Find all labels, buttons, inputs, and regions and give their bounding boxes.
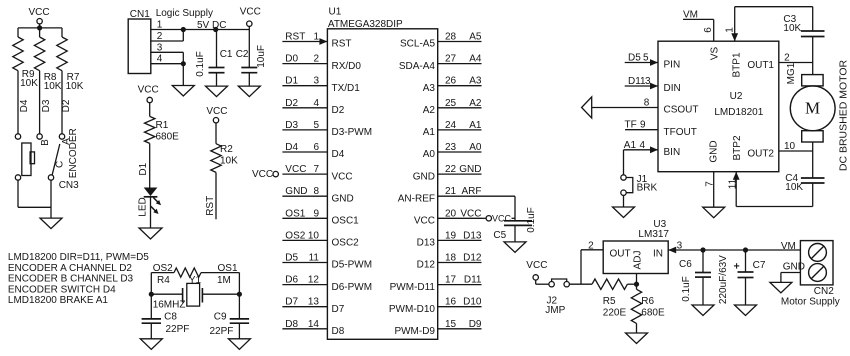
svg-text:ARF: ARF	[462, 186, 482, 197]
svg-text:16: 16	[445, 297, 457, 308]
wire net D4	[18, 71, 30, 134]
svg-text:D4: D4	[285, 142, 298, 153]
U2 pin 9 TFOUT	[625, 120, 697, 138]
U1 pin 5 D3	[282, 120, 372, 138]
svg-text:C9: C9	[214, 312, 227, 323]
ground	[735, 305, 757, 316]
pin 1	[151, 20, 184, 31]
svg-text:U1: U1	[329, 7, 342, 18]
svg-text:D0: D0	[285, 54, 298, 65]
svg-text:D12: D12	[417, 260, 436, 271]
junction	[700, 247, 705, 252]
U1 pin 15 D9	[394, 319, 481, 337]
U2 pin 1 BTP1	[724, 7, 742, 78]
U1 pin 9 OS1	[282, 208, 359, 226]
svg-text:GND: GND	[332, 193, 354, 204]
svg-text:R1: R1	[156, 120, 169, 131]
U2 pin 3 DIN	[625, 76, 681, 94]
wire	[18, 180, 51, 207]
svg-text:12: 12	[308, 275, 320, 286]
svg-text:A0: A0	[423, 149, 436, 160]
svg-text:SCL-A5: SCL-A5	[400, 39, 435, 50]
junction	[634, 282, 639, 287]
power VCC (pin20)	[482, 214, 516, 224]
pushbutton switch (encoder)	[15, 143, 34, 180]
svg-text:5: 5	[313, 120, 319, 131]
resistor R4	[157, 268, 231, 286]
connector CN1	[128, 9, 151, 74]
svg-text:SDA-A4: SDA-A4	[399, 61, 436, 72]
svg-text:DC BRUSHED MOTOR: DC BRUSHED MOTOR	[837, 59, 849, 171]
svg-text:22PF: 22PF	[166, 324, 190, 335]
svg-text:27: 27	[445, 54, 457, 65]
U2 pin 10 OUT2	[747, 141, 812, 160]
ground	[206, 86, 228, 97]
junction	[181, 27, 186, 32]
svg-text:D9: D9	[469, 319, 482, 330]
svg-text:22: 22	[445, 164, 457, 175]
U3 pin 3 IN	[653, 241, 800, 260]
wire net RST	[205, 172, 216, 219]
svg-text:OUT1: OUT1	[747, 60, 774, 71]
transistor U2 LMD18201	[658, 41, 779, 172]
svg-text:3: 3	[157, 42, 163, 53]
svg-text:D4: D4	[19, 99, 30, 112]
U1 pin 18 D12	[417, 253, 482, 271]
wire	[201, 272, 239, 274]
svg-text:VS: VS	[709, 47, 720, 61]
capacitor C3	[783, 7, 824, 75]
ground	[770, 282, 792, 293]
svg-text:1M: 1M	[217, 275, 231, 286]
ground	[139, 228, 162, 239]
junction	[743, 247, 748, 252]
svg-text:8: 8	[644, 98, 650, 109]
wire	[150, 197, 152, 228]
svg-text:7: 7	[313, 164, 319, 175]
svg-text:LMD18200 DIR=D11, PWM=D5: LMD18200 DIR=D11, PWM=D5	[8, 252, 149, 263]
svg-text:17: 17	[445, 275, 457, 286]
U1 pin 25 A2	[423, 98, 482, 116]
label Motor Supply	[781, 297, 840, 308]
U2 pin 7 GND	[704, 140, 719, 207]
svg-text:VCC: VCC	[414, 216, 435, 227]
power VCC	[240, 6, 261, 29]
svg-text:VCC: VCC	[138, 85, 159, 96]
power VCC (reset)	[206, 106, 227, 123]
svg-text:20: 20	[445, 208, 457, 219]
svg-text:VCC: VCC	[526, 260, 547, 271]
svg-text:R5: R5	[603, 296, 616, 307]
svg-text:26: 26	[445, 76, 457, 87]
svg-text:10K: 10K	[220, 156, 238, 167]
capacitor C7	[718, 250, 766, 305]
svg-text:Logic Supply: Logic Supply	[156, 8, 213, 19]
svg-text:LM317: LM317	[638, 229, 669, 240]
svg-text:A4: A4	[469, 54, 482, 65]
svg-text:ENCODER SWITCH D4: ENCODER SWITCH D4	[8, 284, 116, 295]
svg-text:11: 11	[309, 253, 320, 264]
svg-text:D6: D6	[285, 275, 298, 286]
U3 pin 2 OUT	[581, 241, 631, 285]
U2 pin 4 BIN	[624, 140, 681, 158]
svg-text:2: 2	[784, 52, 790, 63]
svg-text:D1: D1	[138, 162, 149, 175]
svg-text:D3: D3	[285, 120, 298, 131]
svg-text:C1: C1	[220, 49, 233, 60]
svg-text:680E: 680E	[641, 307, 665, 318]
svg-text:A1: A1	[624, 140, 637, 151]
svg-text:CN3: CN3	[59, 180, 79, 191]
capacitor C9	[210, 294, 250, 339]
resistor R8	[34, 28, 61, 92]
ground	[613, 207, 635, 218]
svg-text:OS1: OS1	[285, 208, 305, 219]
U2 pin 8 CSOUT	[592, 98, 699, 116]
svg-text:RST: RST	[332, 39, 352, 50]
svg-text:2: 2	[588, 241, 594, 252]
pin 2	[151, 31, 184, 42]
wire	[238, 273, 240, 295]
svg-text:C6: C6	[679, 259, 692, 270]
op-amp U1 ATMEGA328DIP	[327, 7, 437, 340]
U1 pin 19 D13	[417, 230, 482, 248]
svg-text:10K: 10K	[66, 81, 84, 92]
svg-text:15: 15	[445, 319, 457, 330]
wire ARF to C5	[482, 196, 516, 221]
U1 pin 28 A5	[400, 32, 482, 50]
svg-text:OSC2: OSC2	[332, 238, 360, 249]
svg-text:6: 6	[313, 142, 319, 153]
svg-text:A2: A2	[423, 105, 436, 116]
LED D1	[137, 188, 161, 217]
svg-text:D1: D1	[285, 76, 298, 87]
svg-text:GND: GND	[413, 171, 435, 182]
U1 pin 26 A3	[423, 76, 482, 94]
U1 pin 2 D0	[282, 54, 361, 72]
ground	[504, 242, 526, 253]
ground	[140, 339, 162, 350]
U1 pin 1 RST	[282, 32, 351, 50]
switch contact D4	[15, 134, 20, 139]
junction	[213, 27, 218, 32]
svg-text:ENCODER B CHANNEL D3: ENCODER B CHANNEL D3	[8, 274, 134, 285]
svg-text:D2: D2	[285, 98, 298, 109]
encoder switch arm C	[48, 144, 65, 180]
resistor R1	[145, 103, 180, 144]
svg-text:D8: D8	[285, 319, 298, 330]
svg-text:JMP: JMP	[545, 305, 565, 316]
U2 pin 5 PIN	[625, 53, 680, 71]
svg-text:3: 3	[313, 76, 319, 87]
svg-text:10K: 10K	[20, 78, 38, 89]
svg-text:D3: D3	[41, 99, 52, 112]
pin 4	[151, 54, 184, 65]
svg-text:TF: TF	[625, 120, 637, 131]
ground	[703, 207, 725, 218]
svg-text:D2: D2	[332, 105, 345, 116]
svg-text:680E: 680E	[156, 132, 180, 143]
wire	[182, 30, 184, 42]
junction	[237, 292, 242, 297]
svg-text:10K: 10K	[783, 23, 801, 34]
resistor R6	[631, 284, 665, 323]
svg-text:2: 2	[313, 54, 319, 65]
U1 pin 11 D5	[282, 253, 372, 271]
svg-text:VCC: VCC	[285, 164, 306, 175]
wire BTP2 to C4	[736, 206, 813, 208]
svg-text:5: 5	[643, 53, 649, 64]
resistor R7	[57, 28, 84, 92]
svg-text:D5: D5	[628, 53, 641, 64]
node VCC rail	[18, 27, 62, 29]
svg-text:C5: C5	[493, 230, 506, 241]
wire net D3	[40, 71, 52, 134]
svg-text:D8: D8	[332, 326, 345, 337]
crystal Y1	[151, 275, 239, 311]
svg-text:A1: A1	[423, 127, 436, 138]
svg-text:BRK: BRK	[637, 183, 658, 194]
switch contact B	[37, 134, 51, 146]
svg-text:D11: D11	[464, 275, 482, 286]
U1 pin 21 ARF	[398, 186, 482, 204]
svg-text:D13: D13	[463, 230, 482, 241]
note text block	[8, 252, 149, 306]
svg-text:9: 9	[313, 208, 319, 219]
svg-text:A5: A5	[469, 32, 482, 43]
svg-text:BTP1: BTP1	[732, 52, 743, 77]
svg-text:A3: A3	[423, 83, 436, 94]
svg-text:25: 25	[445, 98, 457, 109]
svg-text:C7: C7	[753, 260, 766, 271]
svg-text:VCC: VCC	[29, 7, 50, 18]
svg-text:A0: A0	[469, 142, 482, 153]
svg-text:11: 11	[727, 178, 738, 189]
U1 pin 8 GND	[282, 186, 353, 204]
node OS1	[218, 263, 238, 274]
svg-text:220uF/63V: 220uF/63V	[718, 255, 729, 304]
wire	[569, 283, 592, 285]
svg-text:ADJ: ADJ	[633, 251, 644, 270]
svg-text:4: 4	[157, 54, 163, 65]
capacitor C5	[493, 207, 537, 242]
svg-text:GND: GND	[709, 140, 720, 162]
svg-text:OS2: OS2	[285, 230, 305, 241]
svg-text:16MHZ: 16MHZ	[153, 300, 186, 311]
svg-text:TFOUT: TFOUT	[664, 127, 697, 138]
U2 pin 6 VS	[703, 19, 720, 60]
power VCC (encoder pull-ups)	[29, 7, 50, 28]
svg-text:D2: D2	[61, 99, 72, 112]
capacitor C4	[785, 173, 824, 207]
wire	[138, 143, 150, 187]
svg-text:D11: D11	[628, 76, 646, 87]
U1 pin 4 D2	[282, 98, 344, 116]
U1 pin 16 D10	[389, 297, 482, 315]
svg-text:23: 23	[445, 142, 457, 153]
svg-text:OSC1: OSC1	[332, 216, 360, 227]
resistor R9	[13, 28, 38, 89]
U1 pin 7 VCC	[252, 164, 353, 182]
svg-text:13: 13	[308, 297, 320, 308]
svg-text:18: 18	[445, 253, 457, 264]
svg-text:MG1: MG1	[786, 62, 797, 84]
U1 pin 13 D7	[282, 297, 344, 315]
svg-text:VCC: VCC	[332, 171, 353, 182]
svg-text:D10: D10	[463, 297, 482, 308]
svg-text:VCC: VCC	[240, 6, 261, 17]
svg-text:U2: U2	[730, 91, 743, 102]
svg-text:LMD18200 BRAKE A1: LMD18200 BRAKE A1	[8, 295, 108, 306]
svg-text:R2: R2	[220, 144, 233, 155]
svg-text:10: 10	[784, 141, 796, 152]
svg-text:ENCODER: ENCODER	[68, 128, 79, 178]
svg-text:A2: A2	[469, 98, 482, 109]
node VM (VS)	[683, 10, 714, 21]
U1 pin 17 D11	[390, 275, 482, 293]
capacitor C8	[142, 294, 190, 339]
svg-text:DIN: DIN	[664, 83, 681, 94]
svg-text:VM: VM	[781, 241, 796, 252]
capacitor C2	[236, 30, 267, 87]
svg-text:0.1uF: 0.1uF	[526, 207, 537, 233]
svg-text:1: 1	[313, 32, 319, 43]
svg-text:4: 4	[313, 98, 319, 109]
svg-text:A1: A1	[469, 120, 482, 131]
svg-text:B: B	[40, 139, 51, 146]
svg-text:BIN: BIN	[664, 147, 681, 158]
label DC BRUSHED MOTOR	[837, 59, 849, 171]
wire	[50, 180, 52, 218]
svg-text:220E: 220E	[603, 307, 627, 318]
svg-text:VCC: VCC	[252, 169, 273, 180]
ground	[172, 86, 194, 97]
svg-text:28: 28	[445, 32, 457, 43]
svg-text:IN: IN	[653, 248, 663, 259]
wire	[627, 283, 636, 285]
svg-text:RST: RST	[285, 32, 305, 43]
svg-text:C2: C2	[236, 49, 249, 60]
U1 pin 22 GND	[413, 164, 482, 182]
svg-text:D7: D7	[285, 297, 298, 308]
svg-text:LED: LED	[137, 197, 148, 216]
svg-text:10K: 10K	[785, 182, 803, 193]
svg-text:PWM-D11: PWM-D11	[390, 282, 436, 293]
svg-text:19: 19	[445, 230, 457, 241]
svg-text:D7: D7	[332, 304, 345, 315]
svg-text:8: 8	[313, 186, 319, 197]
node CSOUT arrow	[582, 97, 592, 118]
node OS2	[153, 263, 173, 274]
svg-text:D5: D5	[285, 253, 298, 264]
svg-text:M: M	[805, 99, 820, 118]
svg-text:3: 3	[677, 241, 683, 252]
ground	[692, 305, 714, 316]
svg-text:10K: 10K	[44, 81, 62, 92]
svg-text:VCC: VCC	[460, 208, 481, 219]
junction	[181, 61, 186, 66]
svg-text:3: 3	[645, 76, 651, 87]
svg-text:24: 24	[445, 120, 457, 131]
pin 3	[151, 42, 184, 53]
svg-text:VCC: VCC	[492, 214, 512, 224]
svg-text:D6-PWM: D6-PWM	[332, 282, 373, 293]
svg-text:4: 4	[639, 140, 645, 151]
wire	[623, 195, 625, 207]
U1 pin 24 A1	[423, 120, 482, 138]
svg-text:GND: GND	[459, 164, 481, 175]
svg-text:A3: A3	[469, 76, 482, 87]
resistor R5	[592, 279, 627, 318]
node VM (CN2)	[781, 241, 796, 252]
svg-text:R6: R6	[641, 296, 654, 307]
svg-text:6: 6	[703, 27, 714, 33]
svg-text:1: 1	[724, 27, 735, 33]
op-amp U3 LM317	[603, 219, 669, 274]
svg-text:OUT2: OUT2	[747, 149, 774, 160]
wire 5V rail	[183, 20, 249, 31]
svg-text:0.1uF: 0.1uF	[195, 51, 206, 77]
power VCC (LED)	[138, 85, 159, 103]
svg-text:10uF: 10uF	[256, 45, 267, 68]
svg-text:1: 1	[157, 20, 163, 31]
svg-text:ENCODER A CHANNEL D2: ENCODER A CHANNEL D2	[8, 263, 133, 274]
svg-text:D5-PWM: D5-PWM	[332, 260, 373, 271]
svg-text:GND: GND	[783, 262, 805, 273]
jumper J1 BRK	[621, 150, 658, 196]
svg-text:21: 21	[445, 186, 457, 197]
svg-text:TX/D1: TX/D1	[332, 83, 361, 94]
svg-text:RST: RST	[205, 196, 216, 216]
wire GND (CN2)	[781, 262, 805, 283]
svg-text:VCC: VCC	[206, 106, 227, 117]
svg-text:10: 10	[308, 230, 320, 241]
resistor R2	[211, 123, 238, 172]
ground	[238, 86, 260, 97]
ground	[228, 339, 250, 350]
wire	[182, 52, 184, 85]
U1 pin 27 A4	[399, 54, 482, 72]
junction	[149, 292, 154, 297]
svg-text:R4: R4	[157, 275, 170, 286]
ground	[40, 218, 62, 229]
svg-text:CN2: CN2	[814, 286, 834, 297]
svg-text:14: 14	[308, 319, 320, 330]
svg-text:C: C	[55, 161, 66, 168]
svg-text:D13: D13	[417, 238, 436, 249]
svg-text:22PF: 22PF	[210, 326, 234, 337]
junction	[37, 25, 42, 30]
svg-text:2: 2	[157, 31, 163, 42]
svg-text:PWM-D9: PWM-D9	[394, 326, 435, 337]
wire	[151, 272, 174, 274]
U1 pin 20 VCC	[414, 208, 482, 226]
ground	[626, 333, 648, 344]
U1 pin 23 A0	[423, 142, 482, 160]
capacitor C1	[195, 30, 233, 87]
svg-text:GND: GND	[285, 186, 307, 197]
svg-text:BTP2: BTP2	[732, 135, 743, 160]
wire net D2	[61, 71, 72, 134]
jumper J2 JMP	[545, 279, 569, 316]
U2 pin 2 OUT1	[747, 52, 812, 84]
svg-text:Motor Supply: Motor Supply	[781, 297, 840, 308]
U1 pin 14 D8	[282, 319, 344, 337]
connector CN3 label	[59, 180, 79, 191]
power VCC (J2)	[526, 260, 549, 284]
svg-text:D12: D12	[463, 253, 482, 264]
svg-text:PIN: PIN	[664, 60, 681, 71]
